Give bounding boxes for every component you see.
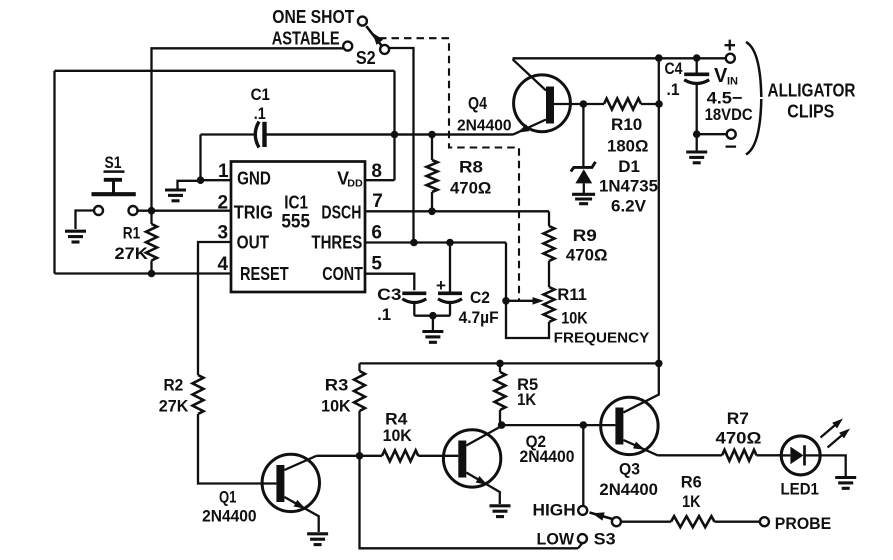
- transistor Q2 2N4400: [443, 426, 574, 504]
- svg-text:Q1: Q1: [219, 488, 236, 507]
- svg-text:R8: R8: [459, 158, 483, 177]
- resistor R8 470ohm: [427, 135, 492, 212]
- svg-text:2N4400: 2N4400: [599, 481, 658, 499]
- svg-text:10K: 10K: [561, 309, 588, 328]
- svg-text:R10: R10: [611, 115, 642, 134]
- LED light arrows: [821, 419, 851, 448]
- transistor Q3 2N4400: [599, 363, 658, 499]
- svg-text:R3: R3: [325, 376, 349, 395]
- ground (Q2): [490, 506, 511, 517]
- svg-text:4: 4: [218, 254, 229, 275]
- svg-text:5: 5: [371, 253, 382, 274]
- svg-text:2N4400: 2N4400: [520, 448, 575, 466]
- svg-text:Q4: Q4: [468, 93, 487, 113]
- resistor R4 10K: [360, 410, 459, 462]
- svg-text:180Ω: 180Ω: [607, 137, 648, 156]
- ground (C3/C2): [422, 332, 443, 343]
- svg-text:DSCH: DSCH: [321, 203, 361, 223]
- svg-text:R11: R11: [557, 285, 586, 304]
- capacitor C3 .1: [377, 285, 426, 324]
- wire Q2 collector node to Q3 base: [502, 424, 616, 426]
- LED LED1: [781, 436, 821, 499]
- svg-text:6.2V: 6.2V: [611, 197, 647, 216]
- wire S2 astable feed (x=151.5 down to TRIG): [152, 48, 344, 210]
- svg-text:OUT: OUT: [237, 233, 270, 253]
- svg-text:CONT: CONT: [322, 264, 363, 284]
- node R5 top on rail: [496, 360, 504, 368]
- wire OUT pin3 down to Q1 base: [198, 242, 231, 375]
- wire DSCH pin7 to R9: [365, 210, 549, 212]
- svg-text:1N4735: 1N4735: [599, 178, 658, 196]
- svg-text:8: 8: [371, 161, 382, 182]
- node VDD junction at (394.5,134.5): [391, 131, 399, 139]
- svg-text:27K: 27K: [159, 397, 189, 416]
- svg-text:10K: 10K: [321, 397, 351, 416]
- pin 1 stub: [201, 179, 232, 181]
- node R11 wiper junction: [502, 297, 510, 305]
- svg-text:.1: .1: [667, 80, 680, 99]
- wire VDD rail y=134.5: [267, 133, 514, 135]
- wire Q3 base node down to HIGH terminal: [582, 425, 584, 505]
- wire LED cathode to ground: [820, 455, 846, 476]
- resistor R6 1K: [621, 473, 760, 528]
- svg-text:FREQUENCY: FREQUENCY: [554, 331, 650, 347]
- ground (Q1): [307, 534, 328, 545]
- svg-text:1K: 1K: [682, 492, 701, 511]
- resistor R3 10K: [321, 363, 365, 455]
- node Q1 collector / R3 / R4 junction: [356, 452, 364, 460]
- ground (D1): [572, 194, 595, 203]
- dashed wire S2 one-shot to R11 wiper: [379, 38, 519, 301]
- wire top-left loop (RESET/pin4 to VDD rail corner): [55, 71, 395, 274]
- wire CONT pin5 to C3: [365, 274, 414, 291]
- ground (IC pin 1): [165, 190, 186, 201]
- node THRES/C2 junction: [446, 239, 454, 247]
- wire THRES corner down to wiper: [505, 243, 507, 301]
- svg-text:R6: R6: [681, 473, 702, 492]
- svg-text:3: 3: [218, 223, 229, 244]
- svg-text:+: +: [724, 34, 736, 57]
- terminal V+ alligator clip: [724, 34, 736, 63]
- potentiometer R11 10K FREQUENCY: [506, 285, 650, 347]
- svg-text:6: 6: [371, 223, 382, 244]
- node THRES/S2 junction: [410, 239, 418, 247]
- diode D1 zener 1N4735 6.2V: [571, 104, 658, 216]
- svg-text:C2: C2: [470, 288, 490, 307]
- node GND pin1 junction: [197, 176, 205, 184]
- svg-text:C3: C3: [377, 285, 401, 304]
- node C4 bottom junction: [693, 130, 701, 138]
- resistor R2 27K: [159, 375, 262, 484]
- brace alligator clips: [746, 42, 856, 155]
- switch S2 ONE SHOT / ASTABLE: [272, 6, 389, 68]
- node C3/C2 ground junction: [429, 312, 437, 320]
- svg-text:V: V: [714, 65, 728, 87]
- svg-text:18VDC: 18VDC: [705, 105, 753, 124]
- node Q3 base / S3 HIGH junction: [580, 421, 588, 429]
- svg-text:TRIG: TRIG: [234, 203, 273, 223]
- resistor R7 470ohm: [658, 409, 782, 461]
- svg-text:470Ω: 470Ω: [450, 179, 491, 198]
- svg-text:CLIPS: CLIPS: [787, 101, 834, 122]
- wire main riser x=659 (top rail to bottom rail): [658, 58, 660, 363]
- capacitor C4 .1: [665, 58, 710, 134]
- switch S3 HIGH/LOW: [533, 501, 621, 549]
- svg-text:555: 555: [281, 212, 310, 233]
- svg-text:R1: R1: [123, 224, 141, 243]
- svg-text:ASTABLE: ASTABLE: [272, 27, 340, 48]
- wire C3/C2 common to ground: [414, 316, 450, 330]
- svg-text:LED1: LED1: [781, 480, 819, 499]
- wire Q1 collector to R4 node: [317, 455, 360, 457]
- svg-text:PROBE: PROBE: [775, 514, 831, 533]
- svg-text:R2: R2: [164, 376, 184, 395]
- ground (S1): [65, 231, 86, 242]
- terminal PROBE: [760, 514, 831, 533]
- wire VDD riser x=394.5 (pin 8 to top loop): [365, 71, 395, 180]
- svg-text:+: +: [436, 276, 446, 295]
- svg-text:2N4400: 2N4400: [457, 118, 512, 135]
- capacitor C1 .1: [201, 85, 514, 148]
- wire TRIG (S1 to pin 2): [138, 210, 232, 212]
- resistor R1 27K: [115, 211, 158, 274]
- svg-text:.1: .1: [254, 104, 266, 123]
- svg-text:ALLIGATOR: ALLIGATOR: [768, 80, 856, 101]
- wire C4 bottom to V- terminal: [697, 133, 726, 135]
- svg-text:2: 2: [218, 193, 229, 214]
- svg-text:IC1: IC1: [284, 193, 308, 213]
- svg-text:D1: D1: [618, 157, 640, 176]
- wire top rail y=58.3 (Q4 collector to V+): [513, 57, 731, 59]
- transistor Q1 2N4400: [202, 454, 319, 532]
- svg-text:S3: S3: [594, 530, 616, 549]
- svg-text:4.7µF: 4.7µF: [459, 308, 499, 327]
- transistor Q4 2N4400: [457, 59, 583, 134]
- svg-text:S2: S2: [356, 47, 376, 68]
- label VIN supply: [705, 65, 753, 124]
- svg-text:7: 7: [372, 191, 383, 212]
- wire R3 node down to LOW rail: [360, 456, 583, 549]
- resistor R9 470ohm: [544, 211, 608, 287]
- svg-text:470Ω: 470Ω: [716, 429, 762, 448]
- wire bottom supply rail y=363.4: [360, 362, 659, 364]
- wire S2 common to THRES (x=413.5): [389, 48, 413, 243]
- svg-text:HIGH: HIGH: [533, 501, 576, 520]
- svg-text:THRES: THRES: [311, 233, 362, 253]
- node rail / x659 junction: [655, 360, 663, 368]
- svg-text:R9: R9: [573, 226, 597, 245]
- node top rail / x659 junction: [655, 54, 663, 62]
- svg-text:1K: 1K: [517, 390, 537, 409]
- node R8 top on VDD rail: [428, 131, 436, 139]
- svg-text:Q3: Q3: [619, 460, 640, 479]
- node TRIG junction at (151.5,210.7): [148, 207, 156, 215]
- ground (LED1): [835, 478, 856, 489]
- svg-text:S1: S1: [105, 153, 122, 172]
- node R10 right junction: [655, 100, 663, 108]
- svg-text:2N4400: 2N4400: [202, 508, 257, 526]
- svg-text:LOW: LOW: [537, 530, 576, 549]
- svg-text:.1: .1: [377, 305, 391, 324]
- capacitor C2 4.7uF: [436, 243, 499, 328]
- wire THRES pin6: [365, 241, 506, 243]
- resistor R10 180ohm: [583, 99, 659, 156]
- node Q2 collector / R5 junction: [498, 421, 506, 429]
- svg-text:GND: GND: [237, 168, 271, 188]
- svg-text:27K: 27K: [115, 244, 149, 263]
- node R8 bottom on DSCH line: [428, 208, 436, 216]
- svg-text:1: 1: [218, 161, 229, 182]
- pushbutton S1: [92, 153, 138, 215]
- node C4 top junction: [693, 54, 701, 62]
- svg-text:ONE SHOT: ONE SHOT: [272, 6, 355, 27]
- svg-text:DD: DD: [347, 178, 363, 190]
- svg-text:C1: C1: [251, 85, 270, 104]
- svg-text:C4: C4: [665, 59, 683, 78]
- svg-text:IN: IN: [727, 76, 738, 88]
- wire S1 to ground: [76, 211, 95, 230]
- terminal V- alligator clip: [725, 130, 737, 159]
- svg-text:−: −: [725, 136, 737, 159]
- node RESET junction at (151.5,273.5): [148, 270, 156, 278]
- resistor R5 1K: [495, 363, 539, 425]
- IC U1 555 box: [231, 162, 365, 293]
- wire C1 left down to pin 1 GND: [199, 135, 201, 181]
- svg-text:470Ω: 470Ω: [566, 246, 608, 265]
- node Q4 base / D1 junction: [580, 100, 588, 108]
- wire pin1 to ground: [178, 181, 201, 189]
- svg-text:RESET: RESET: [240, 264, 289, 284]
- svg-text:R7: R7: [727, 409, 749, 428]
- svg-text:10K: 10K: [383, 426, 413, 445]
- ground (C4 / V-): [686, 134, 707, 163]
